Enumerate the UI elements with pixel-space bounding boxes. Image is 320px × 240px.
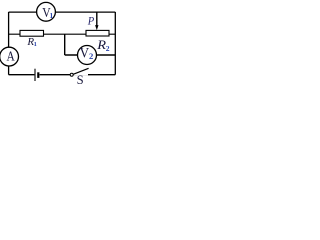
svg-text:A: A [7,48,16,63]
wire: middle horizontal branch through R1 to R2 [9,33,116,35]
wire: right side of loop [114,12,116,75]
svg-text:1: 1 [34,41,37,48]
rheostat R2 [86,30,109,36]
voltmeter V2 [78,46,97,65]
svg-text:V: V [80,46,89,62]
battery cell [34,69,39,81]
wire: top side of loop [9,11,116,13]
svg-text:P: P [87,15,95,28]
svg-text:1: 1 [50,11,54,20]
wiper arrow P of rheostat [95,12,98,30]
svg-text:2: 2 [89,51,93,61]
svg-text:S: S [77,73,84,86]
label R2 [96,38,110,53]
wire: left side of loop [8,12,10,75]
wire: bottom side of loop [9,74,116,76]
svg-text:2: 2 [106,44,110,53]
wire: V2 branch vertical drop at junction [64,34,66,55]
switch S [70,68,89,76]
voltmeter V1 [37,2,56,21]
wire: V2 branch horizontal [65,54,116,56]
ammeter A [0,47,19,66]
resistor R1 [20,30,44,36]
label R1 [26,36,36,48]
